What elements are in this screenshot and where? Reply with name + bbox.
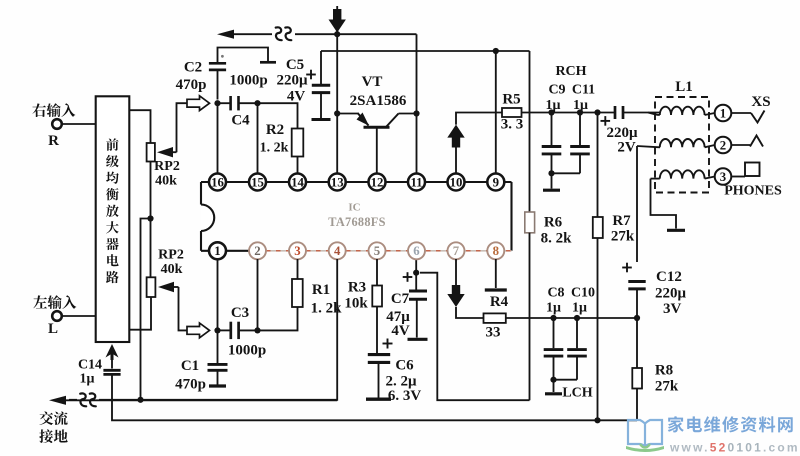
- label 右输入: [32, 103, 75, 117]
- capacitor C8: [544, 318, 564, 380]
- label 220u C12: [655, 286, 687, 302]
- label 交流: [39, 411, 67, 425]
- wire R8 to bottom rail: [636, 389, 638, 421]
- svg-text:3: 3: [720, 170, 726, 184]
- label RCH: [555, 64, 586, 79]
- svg-text:7: 7: [453, 244, 460, 258]
- wire ac ground line: [65, 399, 337, 401]
- wire R4 rail right: [506, 317, 637, 319]
- capacitor C7: [408, 273, 428, 340]
- wire R input to preamp: [62, 123, 96, 125]
- label C12: [656, 269, 682, 285]
- label RP2 upper: [154, 159, 180, 174]
- wire preamp upper output: [129, 110, 150, 143]
- svg-text:1μ: 1μ: [573, 98, 588, 113]
- node C8 C10 bottom: [550, 377, 556, 383]
- break symbol bottom: [77, 391, 99, 409]
- svg-text:6. 3V: 6. 3V: [388, 388, 422, 404]
- node RP2 junction: [147, 215, 153, 221]
- capacitor C6: [366, 307, 391, 400]
- wire C9 C11 bottom: [552, 172, 581, 174]
- svg-text:3V: 3V: [663, 301, 682, 317]
- plus 220u: [601, 116, 611, 126]
- node C8 junction: [550, 315, 556, 321]
- plate stub: [260, 61, 276, 64]
- svg-text:L1: L1: [675, 79, 693, 95]
- svg-text:10k: 10k: [344, 296, 368, 312]
- label R7: [612, 213, 631, 229]
- svg-text:470p: 470p: [175, 377, 206, 393]
- wire preamp ground arrow: [106, 344, 119, 369]
- wire R1 to pin3: [297, 259, 299, 279]
- pin 13: [329, 174, 346, 191]
- pin 12: [369, 174, 386, 191]
- svg-text:C4: C4: [231, 113, 250, 129]
- capacitor 220u 2V: [615, 106, 660, 119]
- ground pin8: [485, 259, 507, 290]
- svg-text:4: 4: [334, 244, 341, 258]
- resistor R8: [632, 368, 642, 389]
- ground C9: [543, 173, 560, 190]
- capacitor C9: [542, 113, 562, 174]
- node C9 C11 bottom: [548, 170, 554, 176]
- wire RP2 wiper to block arrow: [177, 103, 188, 152]
- wire off-page arrow left: [217, 30, 234, 39]
- break symbol top: [272, 25, 295, 43]
- capacitor C11: [570, 113, 590, 174]
- svg-text:L: L: [48, 321, 58, 337]
- pin 3: [289, 242, 306, 259]
- jack ring contact: [731, 136, 763, 147]
- pin 4: [329, 242, 346, 259]
- svg-text:5: 5: [374, 244, 380, 258]
- label 10k: [344, 296, 368, 312]
- resistor R3: [372, 286, 382, 307]
- svg-text:R3: R3: [348, 280, 366, 296]
- wire bottom rail: [112, 400, 637, 420]
- wire pin5 to R3: [376, 259, 378, 286]
- wire RP2 lower bottom to preamp: [129, 297, 151, 330]
- capacitor C14: [103, 370, 120, 400]
- terminal 3: [715, 168, 732, 185]
- svg-text:R1: R1: [312, 282, 330, 298]
- capacitor C10: [567, 318, 587, 380]
- potentiometer RP2 upper: [147, 143, 177, 162]
- svg-text:13: 13: [331, 175, 344, 189]
- pin 8: [487, 242, 504, 259]
- label 1u C11: [573, 98, 588, 113]
- svg-text:40k: 40k: [155, 174, 177, 189]
- jack tip contact: [731, 111, 764, 123]
- wire arrow to R4: [456, 307, 484, 318]
- svg-text:2: 2: [720, 138, 726, 152]
- label 2V: [617, 140, 636, 156]
- svg-text:C6: C6: [395, 358, 414, 374]
- signal arrow down at pin7: [447, 285, 464, 307]
- pin 7: [448, 242, 465, 259]
- svg-text:1: 1: [214, 244, 220, 258]
- svg-text:R: R: [48, 133, 59, 149]
- svg-text:3: 3: [294, 244, 300, 258]
- svg-text:220μ: 220μ: [276, 73, 308, 89]
- label RP2 lower: [158, 248, 184, 263]
- svg-text:10: 10: [450, 175, 463, 189]
- svg-text:27k: 27k: [611, 229, 635, 245]
- svg-text:RP2: RP2: [154, 159, 180, 174]
- label 2.2u: [385, 374, 417, 390]
- pin 9: [487, 174, 504, 191]
- inductor L1 box: [655, 97, 709, 193]
- capacitor C4: [218, 96, 258, 110]
- label 4V C7: [391, 323, 410, 339]
- svg-text:220μ: 220μ: [655, 286, 687, 302]
- wire C12 to R8: [636, 318, 638, 368]
- wire vcc rail: [321, 50, 530, 52]
- wire pin2 down: [257, 259, 259, 330]
- label 1u C9: [546, 98, 561, 113]
- label 40k lower: [161, 262, 183, 277]
- wire pin11 column: [416, 34, 418, 174]
- svg-text:4V: 4V: [287, 89, 306, 105]
- label 4V C5: [287, 89, 306, 105]
- svg-text:R2: R2: [266, 122, 284, 138]
- plus C5: [306, 70, 316, 80]
- inductor L1 winding 2: [637, 139, 715, 147]
- node C2 C4 junction: [214, 100, 220, 106]
- label C6: [395, 358, 414, 374]
- ac ground arrow: [49, 396, 66, 405]
- plus C7: [403, 272, 413, 282]
- svg-text:TA7688FS: TA7688FS: [328, 215, 386, 229]
- pin 16: [209, 174, 226, 191]
- label C4: [231, 113, 250, 129]
- label 1u C14: [80, 372, 95, 387]
- pin 14: [289, 174, 306, 191]
- wire pin10 up: [455, 148, 457, 174]
- node supply junction: [334, 31, 340, 37]
- node C3 pin2 junction: [254, 327, 260, 333]
- terminal 2: [715, 137, 732, 154]
- wire pin4 down: [69, 259, 337, 400]
- watermark url www.520101.com: [669, 441, 800, 455]
- wire RP2 lower terminal: [150, 162, 152, 219]
- label VT: [362, 74, 383, 90]
- terminal 1: [715, 105, 732, 122]
- label 接地: [39, 429, 67, 443]
- svg-text:XS: XS: [751, 94, 770, 110]
- svg-text:PHONES: PHONES: [724, 184, 782, 199]
- node pin9 rail junction: [493, 48, 499, 54]
- transistor VT 2SA1586: [337, 113, 416, 174]
- label R2: [266, 122, 284, 138]
- label XS: [751, 94, 770, 110]
- signal arrow up at pin10: [447, 125, 464, 148]
- svg-text:1μ: 1μ: [546, 301, 561, 316]
- label PHONES: [724, 184, 782, 199]
- plus C6: [383, 339, 393, 349]
- plus C12: [622, 263, 632, 273]
- terminal L input: [52, 311, 62, 321]
- node VT collector: [413, 110, 419, 116]
- wire output rail right: [522, 112, 615, 114]
- wire pin7 down: [455, 259, 457, 285]
- speck: [221, 55, 224, 58]
- label 左输入: [33, 295, 76, 309]
- wire pin6 loop: [420, 273, 530, 401]
- node C1 C3 junction: [214, 327, 220, 333]
- svg-text:40k: 40k: [161, 262, 183, 277]
- svg-text:C3: C3: [231, 305, 249, 321]
- block preamp 前级均衡放大器电路: [96, 96, 130, 342]
- svg-text:C7: C7: [391, 291, 410, 307]
- wire C3 to R1: [258, 307, 298, 330]
- wire pin1 down: [217, 259, 219, 330]
- label 1.2k R2: [260, 141, 289, 156]
- svg-text:15: 15: [251, 175, 264, 189]
- node R7 junction: [594, 109, 600, 115]
- svg-text:R8: R8: [655, 363, 673, 379]
- svg-text:R5: R5: [502, 92, 520, 108]
- svg-text:LCH: LCH: [562, 386, 592, 401]
- wire arrow to output rail: [456, 113, 502, 125]
- label 3V: [663, 301, 682, 317]
- capacitor C3: [218, 322, 258, 339]
- label 220u 2V: [606, 125, 638, 141]
- svg-text:C1: C1: [181, 358, 199, 374]
- svg-text:RCH: RCH: [555, 64, 586, 79]
- capacitor C5: [312, 85, 331, 119]
- label LCH group: [546, 286, 595, 316]
- svg-text:16: 16: [211, 175, 224, 189]
- node C4 pin15 junction: [254, 100, 260, 106]
- pin 11: [408, 174, 425, 191]
- wire L1 row2 to C12: [636, 146, 638, 262]
- label 1000p bottom: [228, 343, 266, 359]
- capacitor C2: [209, 63, 226, 99]
- label R1: [312, 282, 330, 298]
- label 220u C5: [276, 73, 308, 89]
- svg-text:27k: 27k: [655, 379, 679, 395]
- node R7 bottom: [594, 417, 600, 423]
- svg-text:IC: IC: [348, 202, 360, 214]
- svg-text:R7: R7: [612, 213, 631, 229]
- label C11: [572, 83, 595, 98]
- node pin6 junction: [413, 270, 419, 276]
- label R5: [502, 92, 520, 108]
- wire junction to R2: [258, 103, 298, 128]
- power input arrow: [329, 9, 346, 33]
- label 27k R7: [611, 229, 635, 245]
- svg-text:1μ: 1μ: [80, 372, 95, 387]
- svg-text:1000p: 1000p: [228, 343, 266, 359]
- svg-text:4V: 4V: [391, 323, 410, 339]
- label TA7688FS: [328, 215, 386, 229]
- label 3.3: [501, 117, 524, 133]
- node ac ground junction: [137, 397, 143, 403]
- label R8: [655, 363, 673, 379]
- svg-text:2: 2: [254, 244, 260, 258]
- svg-text:C5: C5: [286, 57, 304, 73]
- svg-text:R4: R4: [490, 294, 509, 310]
- label C3: [231, 305, 249, 321]
- signal arrow left channel: [187, 323, 210, 338]
- label 6.3V: [388, 388, 422, 404]
- svg-text:33: 33: [486, 325, 501, 341]
- svg-text:2SA1586: 2SA1586: [350, 93, 407, 109]
- label C2: [184, 60, 202, 76]
- svg-text:RP2: RP2: [158, 248, 184, 263]
- wire junction to pin16: [217, 103, 219, 174]
- node C11 junction: [577, 109, 583, 115]
- wire R2 to pin14: [297, 157, 299, 174]
- label 47u: [386, 309, 410, 325]
- svg-text:R6: R6: [544, 215, 563, 231]
- svg-text:C12: C12: [656, 269, 682, 285]
- pin 5: [369, 242, 386, 259]
- svg-text:2V: 2V: [617, 140, 636, 156]
- label C5: [286, 57, 304, 73]
- inductor L1 winding 3: [651, 170, 715, 230]
- label R: [48, 133, 59, 149]
- node C10 junction: [574, 315, 580, 321]
- pin 1: [209, 242, 226, 259]
- svg-text:12: 12: [371, 175, 384, 189]
- signal arrow right channel: [187, 96, 210, 111]
- watermark logo 家电维修资料网: [626, 416, 793, 452]
- wire C2 top loop: [218, 48, 269, 64]
- svg-text:C8: C8: [547, 286, 564, 301]
- wire supply drop to pin 13 column: [336, 6, 338, 34]
- svg-text:9: 9: [493, 175, 499, 189]
- svg-text:11: 11: [410, 175, 422, 189]
- label LCH: [562, 386, 592, 401]
- label 470p top: [176, 77, 207, 93]
- resistor R1: [292, 279, 303, 307]
- wire C8 C10 bottom: [554, 379, 578, 381]
- inductor L1 winding 1: [648, 107, 715, 115]
- resistor R4: [484, 313, 506, 323]
- wire top supply rail: [234, 33, 417, 35]
- resistor R5: [502, 108, 522, 117]
- label C9: [548, 83, 565, 98]
- potentiometer RP2 lower: [147, 277, 179, 297]
- svg-text:470p: 470p: [176, 77, 207, 93]
- label 27k R8: [655, 379, 679, 395]
- svg-text:1000p: 1000p: [229, 73, 267, 89]
- resistor R2: [292, 129, 304, 157]
- IC U1 TA7688FS body: [201, 182, 512, 251]
- svg-text:VT: VT: [362, 74, 383, 90]
- label L1: [675, 79, 693, 95]
- svg-text:C14: C14: [78, 358, 102, 373]
- label 1000p top: [229, 73, 267, 89]
- label 2SA1586: [350, 93, 407, 109]
- pin 15: [249, 174, 266, 191]
- svg-text:C2: C2: [184, 60, 202, 76]
- label 33: [486, 325, 501, 341]
- label R3: [348, 280, 366, 296]
- svg-text:1: 1: [720, 106, 726, 120]
- ground C8: [545, 380, 562, 394]
- label 40k upper: [155, 174, 177, 189]
- wire jog to ground column: [141, 219, 151, 401]
- label IC: [348, 202, 360, 214]
- resistor R6: [525, 51, 535, 400]
- capacitor C12: [628, 282, 645, 319]
- label 1.2k R1: [311, 301, 343, 317]
- label 470p bottom: [175, 377, 206, 393]
- capacitor C1: [208, 330, 228, 386]
- wire RP2 column down: [150, 219, 152, 278]
- node VT emitter: [334, 110, 340, 116]
- svg-text:8: 8: [493, 244, 499, 258]
- label C1: [181, 358, 199, 374]
- label R4: [490, 294, 509, 310]
- wire junction to pin15: [257, 103, 259, 174]
- label R6: [544, 215, 563, 231]
- svg-text:C9: C9: [548, 83, 565, 98]
- svg-text:C10: C10: [571, 286, 595, 301]
- svg-text:8. 2k: 8. 2k: [541, 231, 573, 247]
- svg-text:3. 3: 3. 3: [501, 117, 524, 133]
- pin 6: [408, 242, 425, 259]
- label L: [48, 321, 58, 337]
- wire L input to preamp: [62, 315, 96, 317]
- label C7: [391, 291, 410, 307]
- label 8.2k: [541, 231, 573, 247]
- wire pin13 column: [336, 34, 338, 174]
- node C12 R8 junction: [634, 315, 640, 321]
- svg-text:14: 14: [291, 175, 304, 189]
- pin 2: [249, 242, 266, 259]
- svg-text:1μ: 1μ: [572, 301, 587, 316]
- svg-text:C11: C11: [572, 83, 595, 98]
- svg-text:1. 2k: 1. 2k: [260, 141, 289, 156]
- label C14: [78, 358, 102, 373]
- svg-text:www.520101.com: www.520101.com: [669, 441, 800, 455]
- wire wiper to block arrow lower: [179, 287, 188, 330]
- terminal R input: [52, 119, 62, 129]
- IC faded bottom edge: [265, 250, 512, 252]
- wire pin9 up: [495, 51, 497, 174]
- svg-text:1μ: 1μ: [546, 98, 561, 113]
- svg-text:6: 6: [413, 244, 420, 258]
- pin 10: [448, 174, 465, 191]
- node C9 junction: [548, 109, 554, 115]
- jack sleeve contact: [731, 163, 759, 177]
- wire C5 stem: [320, 51, 322, 84]
- wire pin6 stub: [415, 260, 417, 273]
- resistor R7: [593, 113, 603, 420]
